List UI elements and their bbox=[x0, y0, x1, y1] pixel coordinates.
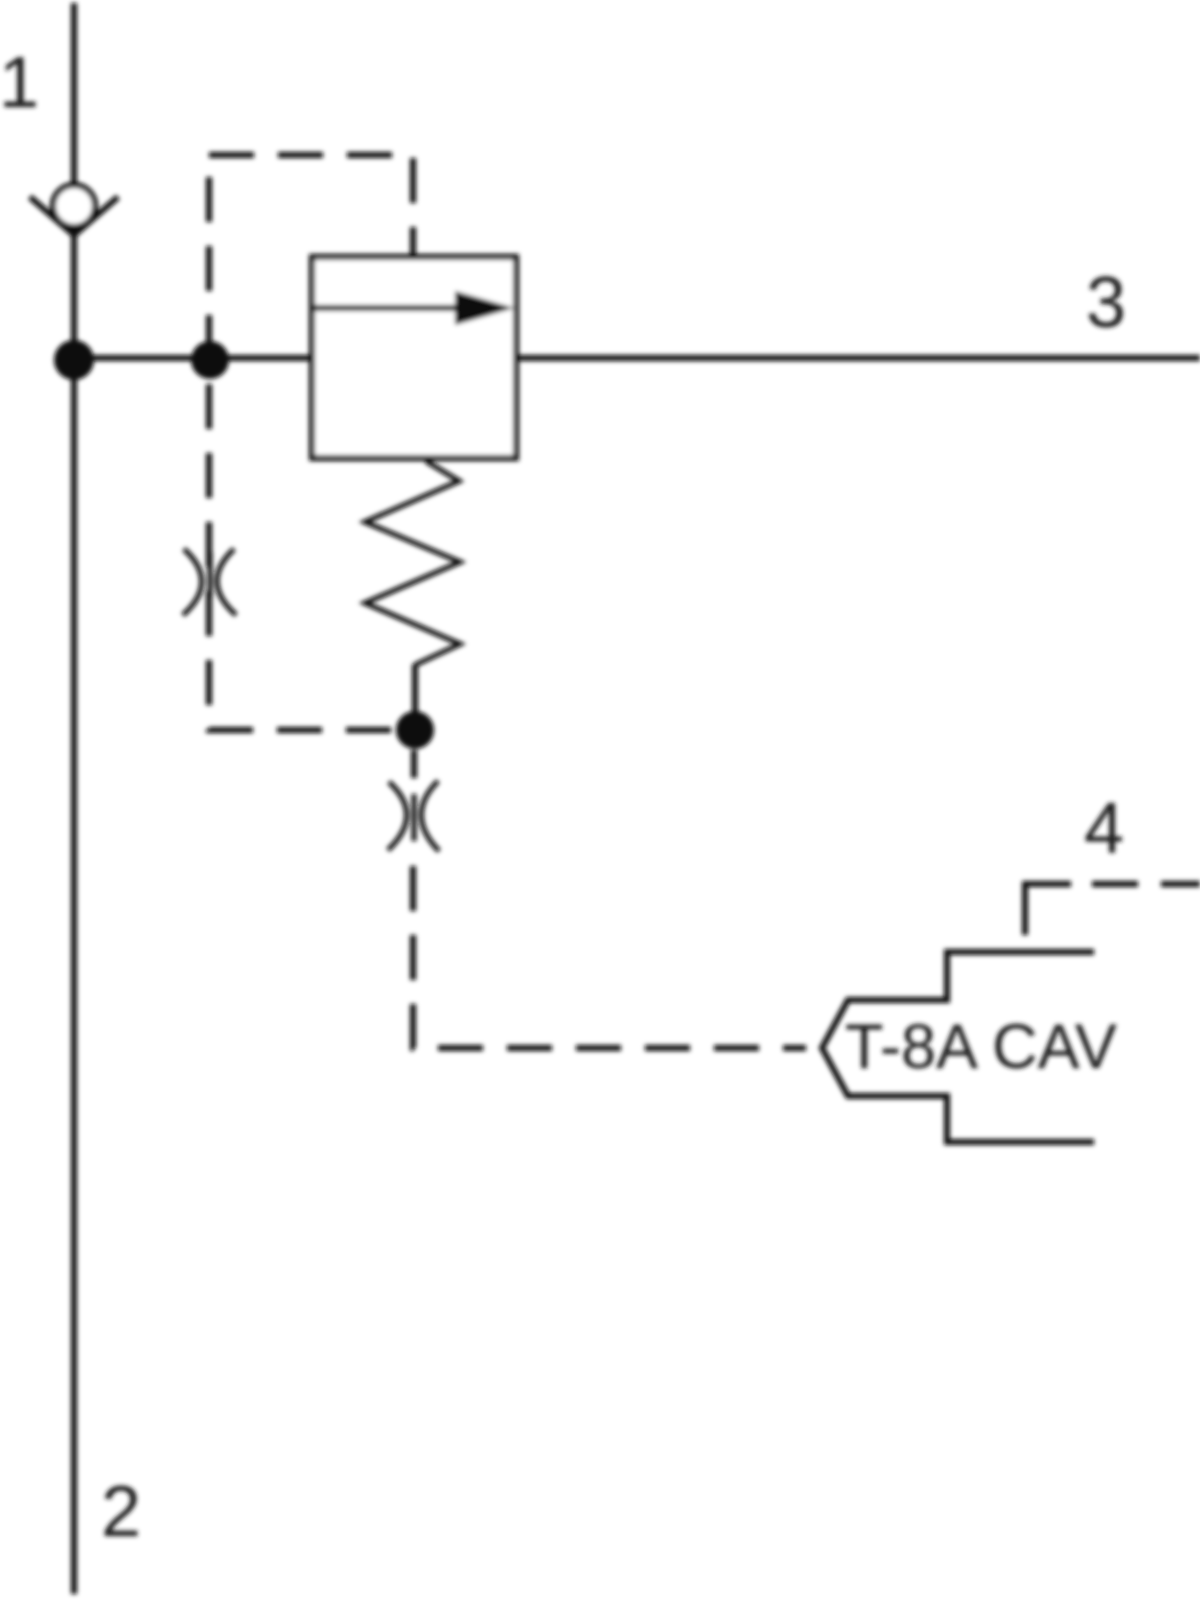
pilot line (dashed) from orifice O2 to cavity port bbox=[413, 866, 806, 1048]
svg-text:4: 4 bbox=[1084, 789, 1124, 869]
svg-text:2: 2 bbox=[101, 1472, 141, 1552]
wire: spring end to node C bbox=[412, 664, 418, 714]
node C junction dot bbox=[396, 711, 434, 749]
pilot line (dashed) left branch down to node C bbox=[209, 155, 415, 730]
svg-text:3: 3 bbox=[1086, 263, 1126, 343]
cavity T-8A outline bbox=[822, 952, 1094, 1142]
pilot dash segment below node C bbox=[411, 750, 417, 778]
check valve CV1 ball-seat bbox=[30, 185, 118, 235]
node A junction dot bbox=[54, 340, 94, 380]
orifice O2 on pilot line bbox=[388, 781, 439, 851]
wire: main horizontal line to port 3 bbox=[74, 355, 1200, 361]
svg-text:T-8A CAV: T-8A CAV bbox=[845, 1012, 1117, 1082]
wire: port 1 vertical line (port 1 to port 2) bbox=[71, 3, 77, 1594]
node B junction dot bbox=[191, 341, 229, 379]
valve U1 flow path with arrow bbox=[312, 291, 514, 325]
spring below valve U1 bbox=[365, 461, 460, 665]
pilot line (dashed) upper loop to valve top bbox=[209, 155, 413, 257]
pilot line (dashed) port 4 to cavity top bbox=[1025, 884, 1200, 935]
orifice O1 on pilot line bbox=[183, 549, 236, 615]
svg-text:1: 1 bbox=[0, 43, 39, 123]
valve U1 body bbox=[312, 257, 516, 458]
